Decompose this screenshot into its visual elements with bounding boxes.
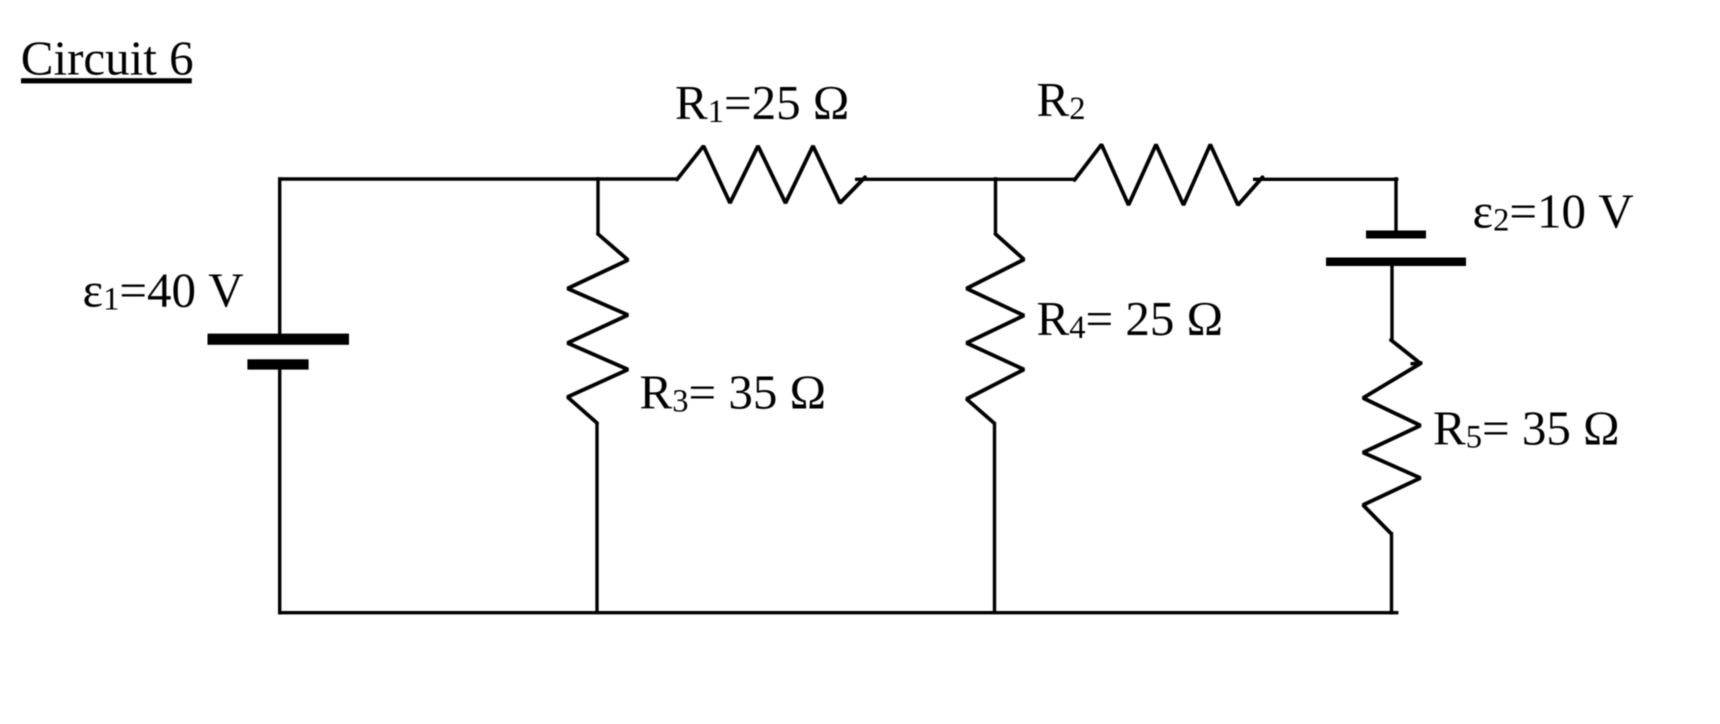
wire right vertical upper	[1394, 177, 1397, 232]
svg-text:R2: R2	[1037, 72, 1086, 127]
battery V1 long plate (+)	[208, 334, 350, 345]
resistor R4	[967, 234, 1025, 423]
wire below battery V2	[1390, 265, 1393, 341]
wire left vertical lower	[278, 370, 281, 615]
battery V1 short plate (-)	[247, 359, 308, 369]
wire node C stub: down to resistor R4	[994, 177, 997, 235]
battery V2 short plate (-)	[1366, 231, 1426, 239]
wire resistor R3 bottom stub	[595, 422, 598, 613]
svg-text:ε1=40 V: ε1=40 V	[83, 262, 244, 317]
wire resistor R5 bottom stub	[1390, 532, 1393, 615]
node B stub: wire down to resistor R3	[596, 177, 599, 235]
title Circuit 6	[21, 31, 194, 86]
wire left vertical upper	[278, 177, 281, 334]
battery V1 (emf source 1)	[208, 334, 350, 370]
resistor R5 apex tick	[1411, 363, 1423, 364]
resistor R2	[1075, 145, 1263, 206]
battery V2 (emf source 2)	[1326, 231, 1466, 267]
svg-text:R3= 35 Ω: R3= 35 Ω	[640, 364, 827, 419]
svg-text:Circuit 6: Circuit 6	[21, 31, 194, 86]
svg-text:R4= 25 Ω: R4= 25 Ω	[1037, 291, 1224, 346]
svg-text:R1=25 Ω: R1=25 Ω	[675, 75, 849, 130]
wire top rail left segment	[278, 177, 678, 180]
wire resistor R4 bottom stub	[993, 422, 996, 613]
resistor R5	[1363, 340, 1421, 533]
resistor R1	[677, 146, 865, 203]
wire top rail right segment (R2 to corner)	[1253, 178, 1398, 181]
resistor R3	[568, 234, 629, 423]
wire bottom rail	[278, 611, 1398, 614]
svg-text:ε2=10 V: ε2=10 V	[1473, 183, 1634, 238]
wire top rail middle segment (R1 to R2 through node B)	[855, 178, 1076, 181]
battery V2 long plate (+)	[1326, 258, 1466, 267]
svg-text:R5= 35 Ω: R5= 35 Ω	[1433, 401, 1620, 456]
